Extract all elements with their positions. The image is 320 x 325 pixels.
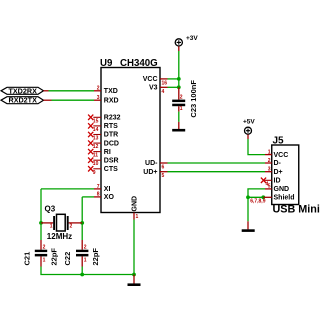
pin J5 D+ (3) (265, 167, 272, 173)
svg-text:5: 5 (162, 173, 165, 179)
svg-text:V3: V3 (149, 85, 158, 92)
svg-text:22pF: 22pF (91, 248, 100, 266)
svg-text:9: 9 (93, 170, 96, 176)
svg-text:DTR: DTR (104, 132, 118, 139)
net flag RXD2TX (1, 96, 44, 105)
power +3V (175, 35, 198, 51)
pin J5 VCC (1) (265, 149, 272, 155)
pin R232 (15) no-connect (88, 115, 101, 125)
svg-text:12MHz: 12MHz (47, 232, 72, 241)
crystal Q3 12MHz (41, 204, 82, 240)
svg-text:3: 3 (268, 167, 271, 173)
wire D- net (168, 162, 266, 164)
svg-text:VCC: VCC (143, 76, 158, 83)
svg-text:TXD2RX: TXD2RX (9, 86, 38, 95)
pin RI (11) no-connect (88, 149, 101, 159)
pin CTS (9) no-connect (88, 166, 101, 176)
svg-text:6,7,8,9: 6,7,8,9 (250, 198, 266, 204)
pin TXD (2) (94, 86, 101, 92)
net flag TXD2RX (1, 86, 44, 95)
junction C22 / bus (80, 273, 84, 277)
svg-text:C21: C21 (23, 252, 32, 266)
svg-text:1: 1 (43, 257, 46, 263)
svg-text:ID: ID (274, 178, 281, 185)
pin XI (7) (94, 184, 101, 190)
junction shield row right (261, 195, 265, 199)
svg-text:2: 2 (70, 224, 73, 230)
svg-text:USB Mini: USB Mini (273, 204, 320, 216)
wire XI net (41, 189, 94, 240)
svg-text:4: 4 (162, 89, 165, 95)
connector J5 USB Mini (272, 136, 320, 216)
pin RXD (3) (94, 95, 101, 101)
pin J5 ID (4) no-connect (261, 178, 272, 188)
svg-text:10: 10 (93, 161, 99, 167)
svg-text:2: 2 (84, 244, 87, 250)
svg-text:XI: XI (104, 186, 111, 193)
svg-text:VCC: VCC (274, 152, 289, 159)
pin DTR (13) no-connect (88, 132, 101, 142)
svg-text:DSR: DSR (104, 157, 119, 164)
pin UD+ (5) (160, 172, 168, 180)
svg-text:1: 1 (50, 224, 53, 230)
ground below chip (128, 275, 141, 287)
wire TXD net (44, 90, 95, 92)
capacitor C21 22pF (23, 240, 59, 267)
svg-text:22pF: 22pF (50, 248, 59, 266)
junction XO / crystal right (80, 221, 84, 225)
wire XO net (82, 197, 94, 240)
wire ground bus (41, 267, 134, 275)
svg-text:R232: R232 (104, 115, 121, 122)
pin DCD (12) no-connect (88, 140, 101, 150)
pin J5 D- (2) (265, 158, 272, 164)
svg-text:RXD: RXD (104, 97, 119, 104)
svg-text:6: 6 (162, 165, 165, 171)
svg-text:U9: U9 (100, 58, 113, 69)
svg-text:7: 7 (97, 184, 100, 190)
svg-text:13: 13 (93, 136, 99, 142)
pin DSR (10) no-connect (88, 158, 101, 168)
svg-text:C23 100nF: C23 100nF (189, 80, 198, 118)
svg-text:11: 11 (93, 153, 99, 159)
svg-text:12: 12 (93, 144, 99, 150)
wire J5 GND to shield/ground (248, 189, 265, 221)
svg-text:GND: GND (274, 186, 290, 193)
svg-text:RI: RI (104, 149, 111, 156)
svg-text:+5V: +5V (243, 118, 255, 125)
svg-text:2: 2 (43, 244, 46, 250)
pin XO (8) (94, 192, 101, 198)
capacitor C22 22pF (63, 240, 100, 267)
ground below C23 (172, 122, 185, 132)
svg-text:1: 1 (268, 149, 271, 155)
junction shield row left (246, 195, 250, 199)
svg-text:15: 15 (93, 118, 99, 124)
svg-text:1: 1 (136, 214, 139, 220)
wire GND pin to bus (133, 220, 135, 275)
svg-text:TXD: TXD (104, 88, 118, 95)
pin RTS (14) no-connect (88, 123, 101, 133)
junction at VCC row (177, 77, 181, 81)
svg-text:C22: C22 (63, 252, 72, 266)
pin UD- (6) (160, 163, 168, 171)
svg-text:14: 14 (93, 127, 99, 133)
svg-text:UD-: UD- (145, 160, 158, 167)
svg-text:RXD2TX: RXD2TX (9, 96, 38, 105)
pin V3 (4) (160, 87, 168, 95)
pin GND (1) (134, 213, 139, 221)
capacitor C23 100nF (172, 80, 198, 118)
wire +3V to VCC/V3 (168, 51, 179, 87)
pin VCC (16) (160, 79, 168, 87)
pin J5 Shield (6,7,8,9) (250, 197, 272, 204)
svg-text:CH340G: CH340G (120, 58, 158, 69)
svg-text:GND: GND (131, 196, 138, 212)
svg-text:J5: J5 (273, 136, 285, 147)
svg-text:UD+: UD+ (143, 169, 157, 176)
svg-text:1: 1 (84, 257, 87, 263)
wire +5V to J5 VCC (248, 139, 265, 155)
svg-text:XO: XO (104, 194, 115, 201)
svg-text:1: 1 (180, 106, 183, 112)
svg-text:+3V: +3V (186, 35, 198, 42)
svg-text:2: 2 (97, 86, 100, 92)
svg-text:2: 2 (268, 158, 271, 164)
svg-text:3: 3 (97, 95, 100, 101)
wire RXD net (44, 99, 95, 101)
svg-text:5: 5 (268, 184, 271, 190)
junction GND / bus (132, 273, 136, 277)
svg-text:8: 8 (97, 192, 100, 198)
svg-text:CTS: CTS (104, 166, 118, 173)
IC U9 CH340G (100, 58, 160, 213)
svg-text:Q3: Q3 (45, 204, 56, 213)
svg-text:D+: D+ (274, 169, 283, 176)
wire C23 to ground (178, 112, 180, 122)
svg-text:D-: D- (274, 160, 282, 167)
power +5V (243, 118, 255, 139)
pin J5 GND (5) (265, 184, 272, 190)
svg-text:DCD: DCD (104, 140, 119, 147)
junction XI / crystal left (39, 221, 43, 225)
svg-text:Shield: Shield (274, 195, 295, 202)
ground below J5 (242, 221, 255, 232)
wire D+ net (168, 171, 266, 173)
svg-text:16: 16 (162, 81, 168, 87)
junction at V3 row (177, 85, 181, 89)
svg-text:RTS: RTS (104, 123, 118, 130)
svg-text:2: 2 (180, 94, 183, 100)
